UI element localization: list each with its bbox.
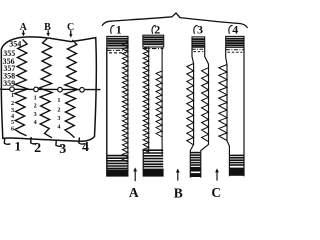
strip 4 right edge — [243, 47, 245, 176]
terminal circle 4 on line — [80, 88, 85, 93]
strip label 3 with hook — [194, 25, 198, 33]
strip 3 serrated right edge — [201, 47, 209, 177]
strip 2 bottom clamped end (hatched) — [143, 149, 163, 151]
svg-text:1: 1 — [11, 92, 14, 99]
strip 3 bottom clamped end (hatched) — [191, 152, 201, 154]
svg-text:1: 1 — [15, 139, 22, 154]
svg-text:1: 1 — [116, 23, 122, 37]
sheet outline (left figure record sheet) — [1, 37, 96, 141]
svg-text:A: A — [129, 185, 139, 198]
terminal circle 3 on line — [58, 87, 63, 92]
strip 2 top clamped end (hatched) — [143, 35, 164, 47]
strip 1 serrated right edge — [127, 48, 129, 176]
strip 3 top clamped end (hatched) — [192, 37, 205, 47]
strip label 4 with hook — [229, 25, 233, 33]
arrow B pointing up — [177, 171, 179, 181]
svg-text:359: 359 — [3, 79, 15, 88]
strip 2 serrated left edge — [148, 47, 150, 153]
strip 1 bottom clamped end (hatched) — [107, 155, 127, 157]
lead label 2 with hook — [31, 137, 37, 144]
svg-text:4: 4 — [82, 140, 89, 155]
lead label 4 with hook — [79, 137, 85, 144]
strip 4 top clamped end (hatched) — [226, 36, 244, 47]
strip 1 left edge — [106, 48, 108, 177]
trace B (middle zigzag resistance element) — [39, 39, 52, 138]
lead label 3 with hook — [56, 140, 62, 147]
lead label 1 with hook — [4, 138, 10, 145]
strip 2 left edge lower — [142, 150, 144, 177]
arrow C pointing up — [216, 171, 218, 181]
trace C (right zigzag resistance element) — [65, 40, 78, 138]
svg-text:1: 1 — [34, 95, 37, 102]
arrow A pointing up — [134, 170, 136, 182]
strip label 1 with hook — [111, 25, 115, 33]
svg-text:2: 2 — [57, 107, 60, 114]
svg-text:3: 3 — [197, 23, 203, 37]
svg-text:2: 2 — [34, 141, 41, 156]
strip label 2 with hook — [152, 25, 156, 33]
svg-text:3: 3 — [34, 111, 37, 118]
svg-text:2: 2 — [34, 103, 37, 110]
wire: horizontal commutating line — [0, 88, 101, 90]
svg-text:4: 4 — [232, 23, 238, 37]
svg-text:1: 1 — [57, 97, 60, 104]
svg-text:4: 4 — [57, 124, 60, 131]
brace spanning strips 1-4 — [102, 13, 248, 28]
trace A (left zigzag resistance element) — [15, 40, 28, 136]
strip 2 right edge with serrated notch — [161, 46, 163, 155]
svg-text:B: B — [174, 185, 183, 198]
svg-text:2: 2 — [11, 100, 14, 107]
svg-text:354: 354 — [9, 39, 21, 48]
strip 3 serrated left edge — [190, 47, 193, 177]
svg-text:2: 2 — [154, 23, 160, 37]
svg-text:4: 4 — [34, 119, 37, 126]
svg-text:3: 3 — [59, 142, 66, 157]
strip 4 bottom clamped end (hatched) — [230, 154, 244, 156]
terminal circle 2 on line — [34, 87, 39, 92]
strip 1 top clamped end (hatched) — [107, 36, 128, 48]
svg-text:3: 3 — [57, 115, 60, 122]
strip 4 serrated left edge — [226, 47, 230, 176]
terminal circle 1 on line — [10, 87, 15, 92]
svg-text:C: C — [211, 185, 221, 198]
svg-text:6: 6 — [11, 126, 14, 133]
